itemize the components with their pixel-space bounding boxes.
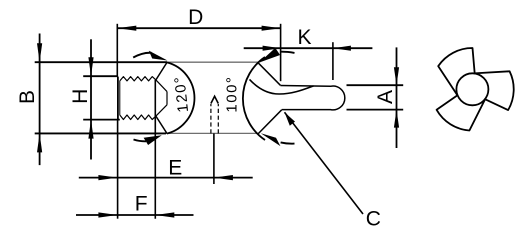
K arrow left (outside): [263, 46, 281, 51]
pipe tip chamfer bottom: [156, 105, 167, 116]
svg-text:C: C: [366, 207, 381, 230]
A arrow top (outside): [394, 67, 399, 85]
B extension line top (thick, extends shank top edge left): [35, 61, 167, 63]
dashed pin hidden line left: [210, 104, 212, 133]
dimension H line: [90, 39, 92, 159]
slot interior relief curve: [250, 79, 314, 94]
dimension B line: [39, 34, 41, 166]
D extension right / K extension left: [280, 24, 282, 81]
rotation arrow top-left tail: [133, 53, 151, 58]
svg-text:A: A: [374, 90, 397, 104]
B arrow top: [37, 43, 42, 62]
E arrow left (outside): [98, 175, 117, 180]
B arrow bottom: [37, 133, 42, 152]
dimension D line: [117, 27, 280, 29]
C leader arrow head: [285, 112, 296, 126]
left jaw lower flank: [156, 116, 167, 133]
pipe tip chamfer top: [156, 80, 167, 92]
thread bottom zigzag: [120, 115, 156, 120]
F arrow left (outside): [98, 212, 117, 217]
svg-text:H: H: [69, 89, 92, 104]
D arrow left: [117, 26, 136, 31]
shank top edge (thin): [167, 61, 258, 63]
right head arc: [243, 57, 265, 140]
svg-text:F: F: [135, 193, 148, 216]
dimension A line: [396, 47, 398, 148]
threaded pipe chamfer edge: [119, 81, 121, 115]
dashed pin hidden line right: [217, 104, 219, 133]
A extension top: [347, 84, 404, 86]
E right extension: [213, 133, 215, 184]
H extension top: [83, 75, 118, 77]
H arrow bottom: [88, 120, 93, 139]
thread top zigzag: [120, 77, 156, 81]
propeller icon hub circle: [456, 73, 488, 105]
rotation arrow top-right head: [259, 48, 280, 63]
dashed pin tip chevron: [211, 96, 218, 103]
svg-text:B: B: [16, 90, 39, 104]
svg-text:100°: 100°: [224, 76, 241, 113]
right jaw lower flank: [258, 110, 281, 134]
A extension bottom: [347, 109, 404, 111]
threaded pipe left edge: [117, 77, 119, 120]
E arrow right (outside): [214, 175, 233, 180]
propeller blade right: [474, 71, 514, 110]
shank bottom edge (thin): [166, 132, 258, 134]
dimension F line: [76, 214, 194, 216]
E/F left extension: [117, 119, 119, 219]
C leader line: [285, 112, 364, 214]
rotation arrow bottom-right tail: [281, 142, 295, 143]
svg-text:E: E: [168, 157, 182, 180]
rotation arrow top-left head: [149, 51, 168, 61]
propeller blade top: [438, 48, 475, 96]
D extension left: [116, 24, 118, 77]
svg-text:K: K: [297, 26, 311, 49]
D arrow right: [262, 26, 281, 31]
dimension K line: [244, 47, 373, 49]
K extension right: [332, 42, 334, 80]
rotation arrow bottom-left tail: [134, 140, 147, 142]
slot outline: [280, 86, 344, 110]
B extension line bottom: [35, 132, 166, 134]
propeller blade bottom-left: [437, 95, 486, 130]
left head arc: [167, 62, 194, 133]
pipe tip edge: [166, 92, 168, 105]
A arrow bottom (outside): [394, 110, 399, 128]
dimension E line: [79, 177, 253, 179]
rotation arrow top-right tail: [281, 52, 295, 53]
H arrow top: [88, 57, 93, 76]
F arrow right (outside): [155, 212, 174, 217]
K arrow right (outside): [333, 46, 351, 51]
rotation arrow bottom-right head: [261, 133, 281, 146]
right jaw upper flank: [258, 62, 281, 85]
H extension bottom: [83, 119, 120, 121]
F right extension (from jaw root through drawing): [154, 80, 156, 219]
rotation arrow bottom-left head: [144, 135, 162, 145]
svg-text:D: D: [188, 6, 203, 29]
left jaw upper flank: [156, 62, 167, 80]
